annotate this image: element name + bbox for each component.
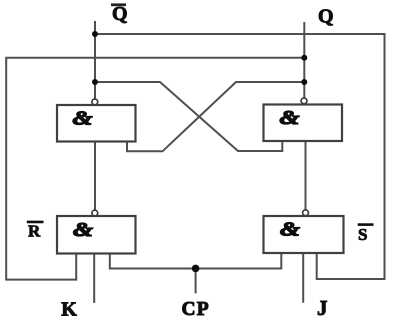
- junction node on Q line (feedback): [301, 55, 307, 61]
- bubble U3 output: [92, 210, 98, 216]
- label Qbar (top left): [111, 3, 128, 25]
- nand-gate U2 box (upper-right): [264, 105, 343, 142]
- svg-text:&: &: [73, 107, 93, 129]
- svg-text:CP: CP: [182, 299, 210, 320]
- svg-text:&: &: [280, 107, 300, 129]
- svg-text:S: S: [358, 225, 367, 244]
- junction node on CP bus: [192, 265, 200, 273]
- nand-gate U4 box (lower-right): [264, 216, 344, 253]
- nand-gate U3 box (lower-left): [57, 216, 136, 254]
- wire Q feedback to lower-left gate (left side, bottom): [6, 58, 304, 280]
- wire cross-couple Qbar to right gate input: [95, 82, 282, 151]
- wire Qbar feedback to lower-right gate (top, right side, bottom): [95, 34, 385, 279]
- junction node on Qbar line (top feedback): [92, 31, 98, 37]
- wire K input: [93, 254, 95, 303]
- wire J input: [302, 253, 304, 302]
- wire Qbar vertical: [94, 22, 96, 98]
- bubble U1 output: [92, 99, 98, 105]
- svg-text:K: K: [61, 299, 77, 321]
- svg-text:R: R: [28, 221, 41, 240]
- wire cross-couple Q to left gate input: [127, 82, 304, 151]
- label Sbar (right): [358, 225, 374, 244]
- svg-text:Q: Q: [112, 3, 128, 25]
- wire CP stem: [195, 269, 197, 293]
- svg-text:J: J: [317, 296, 328, 320]
- svg-text:Q: Q: [318, 6, 334, 28]
- bubble U2 output: [301, 98, 307, 104]
- wire CP bus: [110, 253, 281, 268]
- svg-text:&: &: [73, 219, 93, 241]
- svg-text:&: &: [280, 218, 300, 240]
- wire lower-left gate output to upper-left gate input: [94, 142, 96, 211]
- nand-gate U1 box (upper-left): [57, 105, 136, 142]
- junction node on Q line (cross-couple): [301, 79, 307, 85]
- label Rbar (left): [27, 221, 44, 240]
- wire lower-right gate output to upper-right gate input: [305, 141, 307, 210]
- bubble U4 output: [303, 210, 309, 216]
- wire Q vertical: [303, 23, 305, 98]
- junction node on Qbar line (cross-couple): [92, 79, 98, 85]
